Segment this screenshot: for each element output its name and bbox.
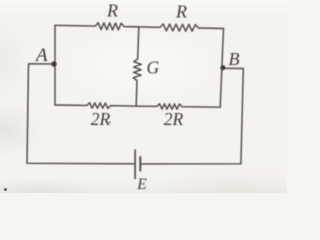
svg-text:R: R	[106, 0, 118, 20]
svg-text:B: B	[229, 49, 240, 69]
svg-text:A: A	[34, 45, 48, 66]
svg-text:2R: 2R	[91, 109, 111, 129]
svg-text:R: R	[175, 1, 187, 21]
svg-text:2R: 2R	[164, 109, 184, 129]
svg-text:G: G	[147, 58, 160, 78]
svg-text:E: E	[136, 176, 147, 193]
